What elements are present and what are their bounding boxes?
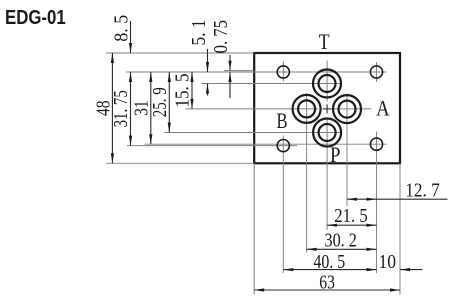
svg-text:15. 5: 15. 5: [172, 74, 194, 108]
bolt hole bottom-right: [370, 138, 382, 150]
dimension 10 arrow line: [400, 269, 422, 271]
svg-text:A: A: [376, 96, 390, 121]
dimension 15.5 line: [191, 72, 193, 109]
svg-text:30. 2: 30. 2: [325, 230, 357, 252]
centerline ports B-A row (left of center cross): [185, 108, 318, 110]
dimension 31.75 line: [130, 72, 132, 146]
extension line plate right edge down: [399, 163, 401, 294]
dimension 0.75 lines: [229, 55, 231, 71]
extension line 0.75 upper bolt row: [224, 70, 254, 72]
svg-text:EDG-01: EDG-01: [5, 6, 66, 29]
extension line plate-bottom: [106, 162, 254, 164]
bolt hole bottom-left: [277, 140, 289, 152]
svg-text:40. 5: 40. 5: [313, 251, 345, 273]
dimension 40.5 line: [283, 269, 376, 271]
centerline ports T-P column (above center cross): [326, 61, 328, 102]
extension line plate left edge down: [253, 163, 255, 294]
centerline ports B-A row (right of center cross): [333, 108, 372, 110]
centerline port P row: [164, 132, 341, 134]
centerline top bolt row: [126, 71, 387, 73]
centerline right bolt column upper tick: [376, 62, 378, 82]
svg-text:12. 7: 12. 7: [405, 180, 440, 202]
svg-text:21. 5: 21. 5: [334, 205, 367, 227]
dimension 31 line: [150, 72, 152, 144]
plate outline (valve mounting face): [254, 53, 400, 163]
dimension 8.5 line: [130, 21, 132, 53]
bolt hole top-left: [277, 66, 289, 78]
centerline bottom bolt row left: [127, 145, 297, 147]
svg-text:0. 75: 0. 75: [210, 20, 232, 53]
centerline port A column: [346, 94, 348, 207]
svg-text:P: P: [330, 142, 341, 167]
svg-text:8. 5: 8. 5: [111, 15, 133, 42]
svg-text:10: 10: [379, 251, 397, 273]
dimension 21.5 line: [327, 224, 376, 226]
svg-text:25. 9: 25. 9: [149, 87, 171, 117]
dimension 63 line: [254, 289, 400, 291]
port T: [313, 70, 341, 98]
centerline ports T-P column (below center cross): [326, 118, 328, 230]
dimension 12.7 line: [347, 198, 448, 200]
centerline left bolt column lower: [282, 136, 284, 274]
centerline port B column: [306, 93, 308, 252]
svg-text:63: 63: [319, 272, 335, 294]
centerline right bolt column lower: [376, 132, 378, 274]
port B: [293, 95, 321, 123]
dimension 48 line: [111, 53, 113, 163]
svg-text:T: T: [319, 29, 330, 54]
bolt hole top-right: [370, 66, 382, 78]
svg-text:5. 1: 5. 1: [188, 20, 210, 46]
extension line plate-top: [106, 52, 254, 54]
port P: [313, 119, 341, 147]
port A: [333, 95, 361, 123]
svg-text:31. 75: 31. 75: [110, 90, 132, 127]
centerline bottom bolt row right: [145, 143, 387, 145]
dimension 5.1 lines: [207, 49, 209, 72]
dimension 30.2 line: [307, 248, 377, 250]
center cross: [323, 104, 332, 113]
svg-text:B: B: [277, 108, 288, 133]
dimension 25.9 line: [168, 72, 170, 133]
centerline left bolt column upper tick: [282, 62, 284, 82]
centerline port T row: [202, 83, 342, 85]
